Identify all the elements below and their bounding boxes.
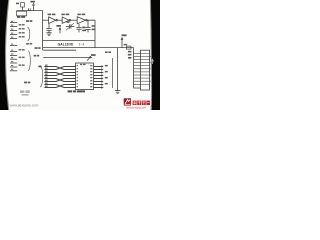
wire net P3.3 (43, 57, 92, 59)
label C1 30p (92, 25, 96, 30)
svg-text:(…): (…) (79, 42, 84, 46)
svg-text:www.jiexiantu.com: www.jiexiantu.com (10, 104, 39, 108)
label XTAL (17, 16, 25, 18)
inverter U1B (62, 17, 70, 23)
label C2 30p (82, 27, 86, 32)
bus wire labels right of U2 (105, 65, 108, 85)
label +5V right (122, 34, 127, 36)
watermark red characters (133, 101, 150, 105)
U2 pin numbers left (77, 65, 93, 87)
series component on rail (126, 46, 131, 49)
brace bundle (40, 66, 42, 87)
+5V supply arrow top-left (32, 3, 34, 10)
node stub P1.2 (10, 30, 17, 32)
node stub P1.3 (10, 34, 17, 36)
node stub P1.5 (10, 45, 17, 47)
label +5V top-left (30, 1, 35, 3)
capacitor ticks on osc wire (29, 8, 31, 10)
wire osc output down (42, 11, 44, 51)
node stub P1.0 (10, 22, 17, 24)
crystal oscillator module XTAL (17, 11, 27, 16)
node stub P1.7 (10, 54, 17, 56)
label P1.7 (24, 82, 30, 84)
connector J1 body (140, 50, 149, 90)
svg-text:GAL16V8: GAL16V8 (58, 42, 73, 46)
label +5V mid (56, 25, 61, 27)
label above rail (124, 44, 128, 46)
resistor R1 (21, 3, 25, 11)
vertical bus mid-right (117, 48, 119, 91)
wire to inverter chain (43, 19, 49, 21)
capacitor C2 (76, 24, 81, 33)
brace group lower (28, 51, 30, 71)
inverter U1A (49, 17, 58, 24)
capacitor C3 to ground (46, 24, 51, 33)
caption under U2 (68, 90, 85, 92)
U2 name (80, 64, 86, 65)
label net P1.0 (26, 20, 32, 22)
labels A0 A1 A2 (128, 51, 131, 59)
bundle pin labels (45, 65, 48, 87)
left stub labels (11, 21, 32, 70)
bundle wire 2 (44, 67, 75, 70)
bundle wire 5 (44, 79, 75, 82)
label net left of wire P3.3 (34, 55, 40, 57)
wire net above title (43, 40, 95, 42)
label U1C 74LS04 (77, 14, 85, 16)
label net left of wire P3.2 (35, 47, 41, 49)
+5V arrow at U2 VCC (87, 56, 91, 60)
brace group upper (28, 27, 30, 41)
U2 right pin stubs with arrows (94, 66, 104, 89)
text labels (11, 1, 131, 93)
node stub P3.2 (10, 66, 17, 68)
bundle wire 1 (44, 67, 75, 70)
ground (46, 33, 52, 36)
+5V arrow mid (59, 28, 61, 34)
label near clock (105, 51, 111, 53)
node stub P1.6 (10, 51, 17, 53)
bundle wire 4 (44, 73, 75, 76)
label R1 (16, 3, 19, 5)
inverter U1C (77, 17, 87, 24)
vertical bus mid-right inner (112, 58, 114, 88)
scan border right (150, 0, 160, 110)
wire top bus +5V rail (43, 47, 134, 49)
vertical bus right connector (134, 48, 141, 88)
connector J1 right stubs (150, 56, 151, 81)
connector J1 pin rows (140, 53, 149, 84)
bundle wire 6 (44, 79, 75, 82)
node stub P1.4 (10, 38, 17, 40)
wire net P3.2 (43, 49, 76, 51)
+5V arrow right (121, 38, 123, 48)
IC U2 box (76, 63, 94, 90)
capacitor C1 on clock line (85, 20, 90, 32)
svg-text:www.jxtwang.com: www.jxtwang.com (126, 107, 146, 110)
watermark gray small (20, 90, 30, 95)
watermark logo red square (124, 98, 131, 105)
scan border left (0, 0, 9, 110)
bundle wire 8 (44, 85, 75, 88)
label U1B 74LS04 (61, 14, 69, 16)
label +5V at U2 (91, 54, 96, 56)
wire (71, 19, 77, 21)
connector J1 left pin wires (134, 53, 141, 84)
node stub P3.3 (10, 70, 17, 72)
label C3 (66, 21, 69, 23)
node stub P3.1 (10, 62, 17, 64)
node stub P3.0 (10, 58, 17, 60)
bundle wire 3 (44, 73, 75, 76)
node stub P1.1 (10, 26, 17, 28)
ground at bus bottom (115, 91, 121, 94)
node label near bundle head (38, 66, 41, 68)
power mark over scan bar (152, 59, 154, 64)
wire top-left horizontal (17, 10, 43, 12)
stub U2 bottom (81, 90, 83, 93)
wire (58, 19, 63, 21)
bundle wire 7 (44, 85, 75, 88)
wire osc to clock net (87, 20, 95, 47)
label U1A 74LS04 (48, 14, 56, 16)
trimmer capacitor C3a (66, 23, 75, 30)
